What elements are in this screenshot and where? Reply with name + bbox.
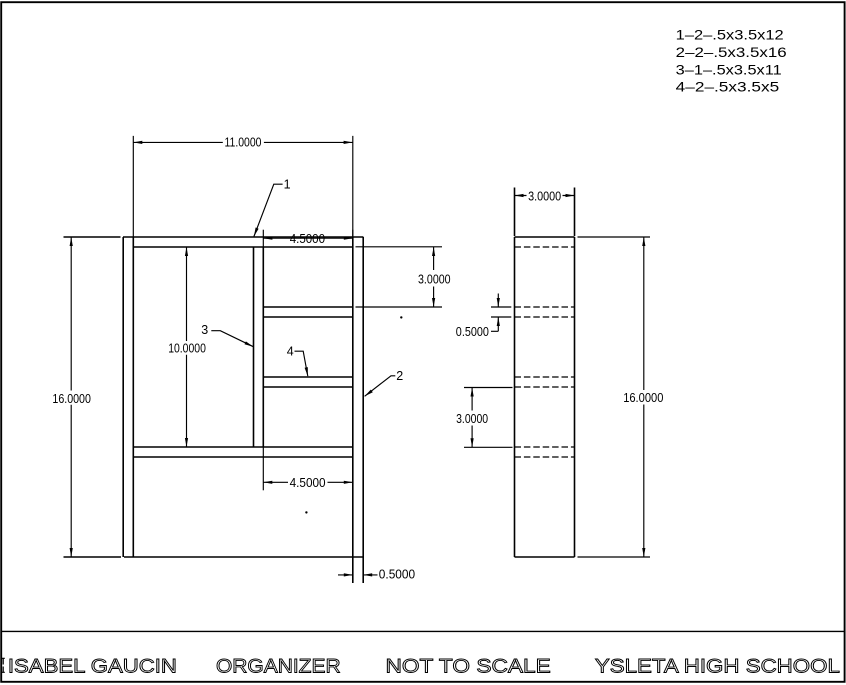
front view: long shelf bottom edge bbox=[133, 456, 352, 458]
dim 16.0000 side arrowheads bbox=[642, 237, 645, 557]
front view: top edge of top board (with 16in dim extension at left) bbox=[64, 236, 364, 238]
side view: right edge (with extension above) bbox=[574, 188, 576, 558]
front view: center divider right edge bbox=[262, 247, 264, 447]
svg-text:4.5000: 4.5000 bbox=[290, 232, 325, 246]
dim 16.0000 front dimension line bbox=[70, 237, 72, 557]
dim 0.5000 side extension lines bbox=[491, 307, 511, 317]
dim 4.5000 bottom dimension line bbox=[263, 481, 353, 483]
dim 11.0000 dimension line bbox=[133, 141, 352, 143]
point marker near label 2 bbox=[400, 316, 402, 318]
dim 0.5000 side arrowheads bbox=[497, 298, 500, 326]
dim 10.0000 arrowheads bbox=[185, 247, 188, 447]
dim 0.5000 bottom dimension line tails bbox=[338, 574, 378, 576]
front view: left side board inner edge bbox=[132, 237, 134, 557]
svg-text:3.0000: 3.0000 bbox=[418, 272, 451, 286]
dim 16.0000 side dimension line bbox=[643, 237, 645, 557]
front view: bottom edge of top board bbox=[133, 246, 352, 248]
dim 4.5000 bottom arrowheads bbox=[263, 481, 353, 484]
front view: upper small shelf bottom edge bbox=[263, 316, 353, 318]
dim 3.0000 front right: extension lines bbox=[356, 247, 443, 307]
title block clipped glyph at left edge bbox=[2, 658, 5, 672]
svg-text:YSLETA HIGH SCHOOL: YSLETA HIGH SCHOOL bbox=[595, 655, 840, 677]
point marker below 4.5000 bbox=[305, 511, 307, 513]
side view: left edge (with extension above for 3.0000 dim) bbox=[514, 188, 516, 558]
svg-text:0.5000: 0.5000 bbox=[379, 568, 415, 582]
svg-text:4: 4 bbox=[287, 344, 294, 358]
dim 0.5000 bottom arrowheads bbox=[344, 573, 372, 576]
svg-text:3: 3 bbox=[201, 323, 208, 337]
dim 11.0000 extension lines bbox=[133, 136, 352, 237]
dim 16.0000 side extension lines bbox=[578, 237, 651, 557]
dim 3.0000 front right arrowheads bbox=[432, 247, 435, 307]
front view: left side board outer edge bbox=[122, 237, 124, 557]
side view: hidden lines, lower small shelf bbox=[515, 377, 575, 387]
front view: center divider left edge bbox=[253, 247, 255, 447]
dim 4.5000 bottom: left extension line below divider bbox=[262, 447, 264, 490]
dim 3.0000 side top dimension line bbox=[515, 195, 575, 197]
svg-text:2–2–.5x3.5x16: 2–2–.5x3.5x16 bbox=[676, 44, 787, 60]
front view: upper small shelf top edge bbox=[263, 306, 353, 308]
svg-text:10.0000: 10.0000 bbox=[168, 342, 206, 356]
svg-text:3–1–.5x3.5x11: 3–1–.5x3.5x11 bbox=[676, 61, 782, 77]
svg-text:16.0000: 16.0000 bbox=[52, 392, 91, 406]
front view: right side board outer edge bbox=[362, 237, 364, 583]
leader 2 line bbox=[365, 376, 396, 397]
svg-text:3.0000: 3.0000 bbox=[528, 189, 561, 203]
svg-text:3.0000: 3.0000 bbox=[456, 412, 488, 426]
svg-text:0.5000: 0.5000 bbox=[456, 325, 489, 339]
leader 3 arrowhead bbox=[245, 341, 254, 346]
svg-text:4–2–.5x3.5x5: 4–2–.5x3.5x5 bbox=[676, 79, 780, 95]
side view: top edge bbox=[515, 236, 575, 238]
side view: hidden line, top board underside bbox=[515, 246, 575, 248]
side view: bottom edge bbox=[515, 556, 575, 558]
side view: hidden lines, long shelf bbox=[515, 447, 575, 457]
dim 4.5000 top dimension line bbox=[263, 237, 352, 239]
front view: bottom edge (with 16in dim extension at left) bbox=[64, 556, 364, 558]
dim 3.0000 front right dimension line bbox=[433, 247, 435, 307]
dim 3.0000 side top arrowheads bbox=[515, 194, 575, 197]
leader 4 arrowhead bbox=[305, 367, 308, 376]
leader 2 arrowhead bbox=[365, 390, 373, 397]
svg-text:1: 1 bbox=[284, 177, 291, 191]
dim 16.0000 front arrowheads bbox=[70, 237, 73, 557]
svg-text:ORGANIZER: ORGANIZER bbox=[216, 655, 341, 677]
svg-text:1–2–.5x3.5x12: 1–2–.5x3.5x12 bbox=[676, 27, 784, 43]
svg-text:ISABEL GAUCIN: ISABEL GAUCIN bbox=[8, 655, 177, 677]
svg-text:NOT TO SCALE: NOT TO SCALE bbox=[386, 655, 551, 677]
dim 4.5000 top: right extension line over top board bbox=[352, 230, 354, 237]
title block divider line bbox=[1, 630, 844, 632]
front view: right side board inner edge (extends below for 0.5 dim) bbox=[352, 237, 354, 583]
leader 3 line bbox=[211, 331, 253, 347]
svg-text:11.0000: 11.0000 bbox=[225, 136, 262, 150]
svg-text:2: 2 bbox=[396, 369, 403, 383]
dim 3.0000 side left extension lines bbox=[464, 388, 513, 448]
dim 3.0000 side left dimension line bbox=[471, 388, 473, 448]
front view: lower small shelf top edge bbox=[263, 376, 353, 378]
front view: long shelf top edge bbox=[133, 446, 352, 448]
leader 1 arrowhead bbox=[254, 228, 259, 237]
dim 3.0000 side left arrowheads bbox=[471, 388, 474, 448]
front view: lower small shelf bottom edge bbox=[263, 386, 353, 388]
dim 4.5000 top arrowheads bbox=[263, 237, 352, 240]
side view: hidden lines, upper small shelf bbox=[515, 307, 575, 317]
dim 11.0000 arrowheads bbox=[133, 141, 352, 144]
svg-text:16.0000: 16.0000 bbox=[623, 391, 663, 405]
dim 0.5000 side arrow stems and landing bbox=[491, 294, 498, 332]
leader 4 line bbox=[295, 351, 308, 376]
leader 1 line bbox=[254, 184, 283, 236]
svg-text:4.5000: 4.5000 bbox=[290, 476, 326, 490]
dim 4.5000 top: left extension line over top board bbox=[262, 230, 264, 247]
dim 10.0000 dimension line bbox=[186, 247, 188, 447]
